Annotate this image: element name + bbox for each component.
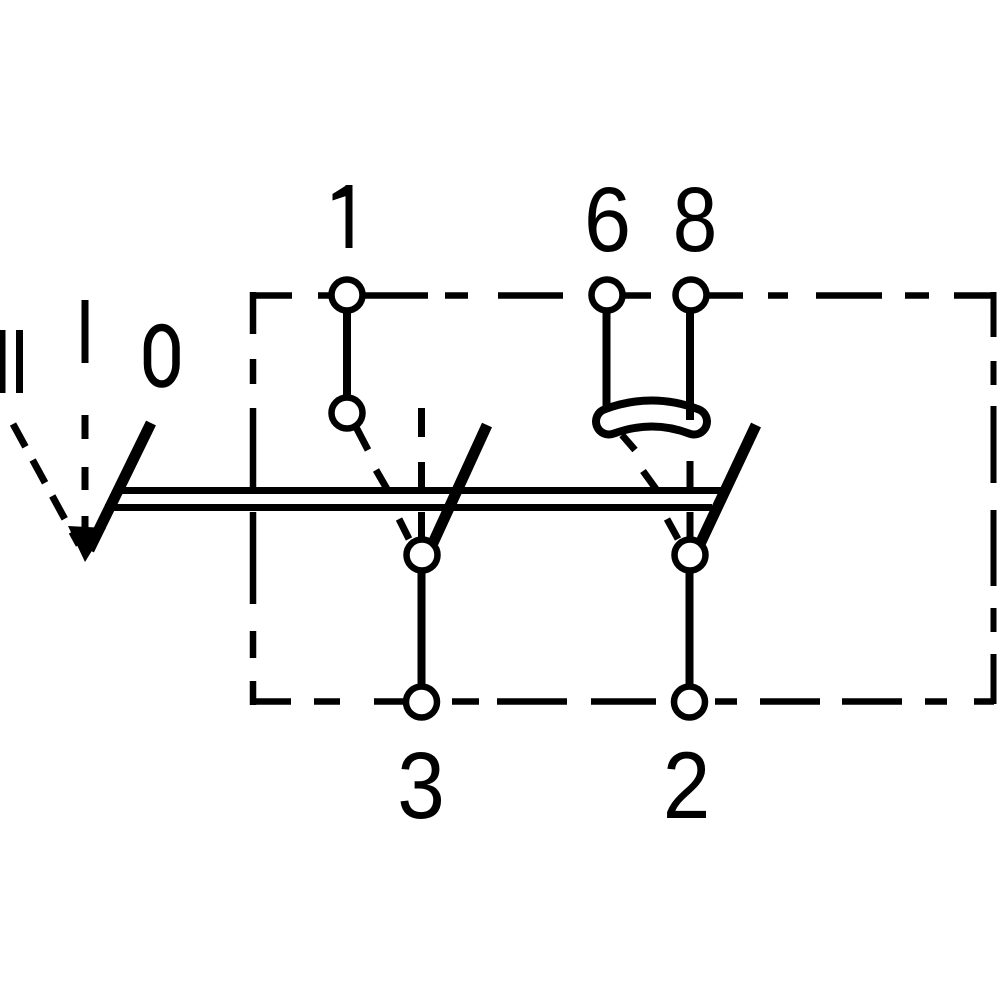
wire from terminal 1 down to fixed contact xyxy=(343,312,351,397)
dashed alternate-position line, right pole diagonal xyxy=(622,435,678,539)
mechanical coupling frame, bottom edge (dash-dot) xyxy=(250,698,994,705)
switch blade, middle pole xyxy=(433,425,487,543)
label II (position) xyxy=(0,330,23,393)
wire from terminal 6 down to bridge contact xyxy=(603,311,611,409)
switch blade, right pole xyxy=(700,425,756,544)
svg-text:2: 2 xyxy=(663,733,711,839)
wire from terminal 8 down into bridge contact xyxy=(686,311,694,420)
bridge contact between 6 and 8 (inner white) xyxy=(609,414,694,422)
terminal circle 8 xyxy=(676,280,707,311)
dashed alternate-position line, right pole vertical xyxy=(687,461,694,538)
dashed position line II of lever xyxy=(13,424,79,545)
label I (position) xyxy=(82,300,89,363)
label 0 (position) xyxy=(148,328,177,385)
terminal label 1 xyxy=(333,185,353,248)
terminal circle 3 xyxy=(406,687,437,718)
lever arrowhead xyxy=(68,526,106,562)
actuator rail (double line), lower line xyxy=(105,504,712,511)
actuator rail (double line), upper line xyxy=(114,487,722,494)
terminal circle 1 xyxy=(332,280,363,311)
svg-text:8: 8 xyxy=(673,169,718,271)
mechanical coupling frame, right edge (dash-dot) xyxy=(991,292,997,704)
mechanical coupling frame, top edge (dash-dot) xyxy=(250,292,994,299)
terminal circle 2 xyxy=(674,687,705,718)
terminal circle 6 xyxy=(592,280,623,311)
svg-text:3: 3 xyxy=(397,733,445,839)
wire from right pivot down to terminal 2 xyxy=(686,572,694,685)
pivot circle middle pole xyxy=(407,540,438,571)
dashed alternate-position line, middle pole vertical xyxy=(418,408,425,538)
mechanical coupling frame, left edge (dash-dot) xyxy=(250,292,257,705)
bridge contact between 6 and 8 (outer) xyxy=(609,414,694,422)
pivot circle right pole xyxy=(675,540,706,571)
dashed alternate-position line, middle pole diagonal xyxy=(356,427,409,539)
svg-text:6: 6 xyxy=(584,168,631,271)
fixed contact circle under terminal 1 xyxy=(332,398,363,429)
dashed position line I of lever xyxy=(82,415,89,532)
wire from middle pivot down to terminal 3 xyxy=(418,572,426,685)
lever shaft (position 0) xyxy=(89,423,151,550)
